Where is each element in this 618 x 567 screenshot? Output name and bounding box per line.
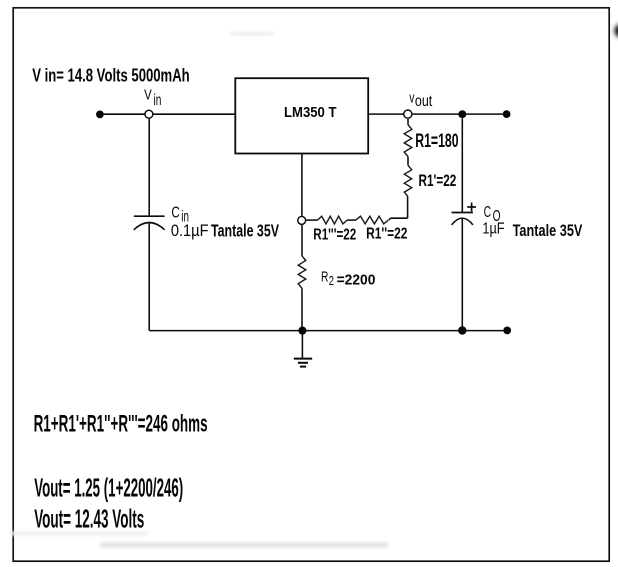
svg-text:LM350 T: LM350 T [284, 104, 337, 121]
svg-text:Tantale 35V: Tantale 35V [211, 221, 279, 241]
svg-text:2: 2 [329, 274, 334, 288]
svg-text:in: in [154, 92, 162, 109]
svg-text:1µF: 1µF [482, 221, 504, 238]
svg-text:0.1µF: 0.1µF [171, 222, 209, 240]
svg-text:R1'''=22: R1'''=22 [313, 226, 356, 243]
svg-text:R1=180: R1=180 [415, 131, 458, 152]
svg-text:R1''=22: R1''=22 [366, 226, 407, 243]
svg-text:=2200: =2200 [337, 272, 376, 289]
svg-text:out: out [415, 93, 433, 110]
svg-text:Vout= 12.43 Volts: Vout= 12.43 Volts [34, 503, 144, 533]
svg-text:R1+R1'+R1''+R'''=246 ohms: R1+R1'+R1''+R'''=246 ohms [34, 410, 208, 437]
svg-text:R: R [321, 269, 329, 286]
svg-text:C: C [484, 204, 492, 221]
svg-text:C: C [171, 205, 179, 222]
svg-text:Vout= 1.25 (1+2200/246): Vout= 1.25 (1+2200/246) [34, 472, 183, 502]
svg-text:R1'=22: R1'=22 [419, 171, 457, 190]
svg-text:V: V [144, 88, 152, 104]
svg-text:V in= 14.8 Volts 5000mAh: V in= 14.8 Volts 5000mAh [32, 66, 190, 86]
svg-text:Tantale 35V: Tantale 35V [513, 221, 583, 240]
